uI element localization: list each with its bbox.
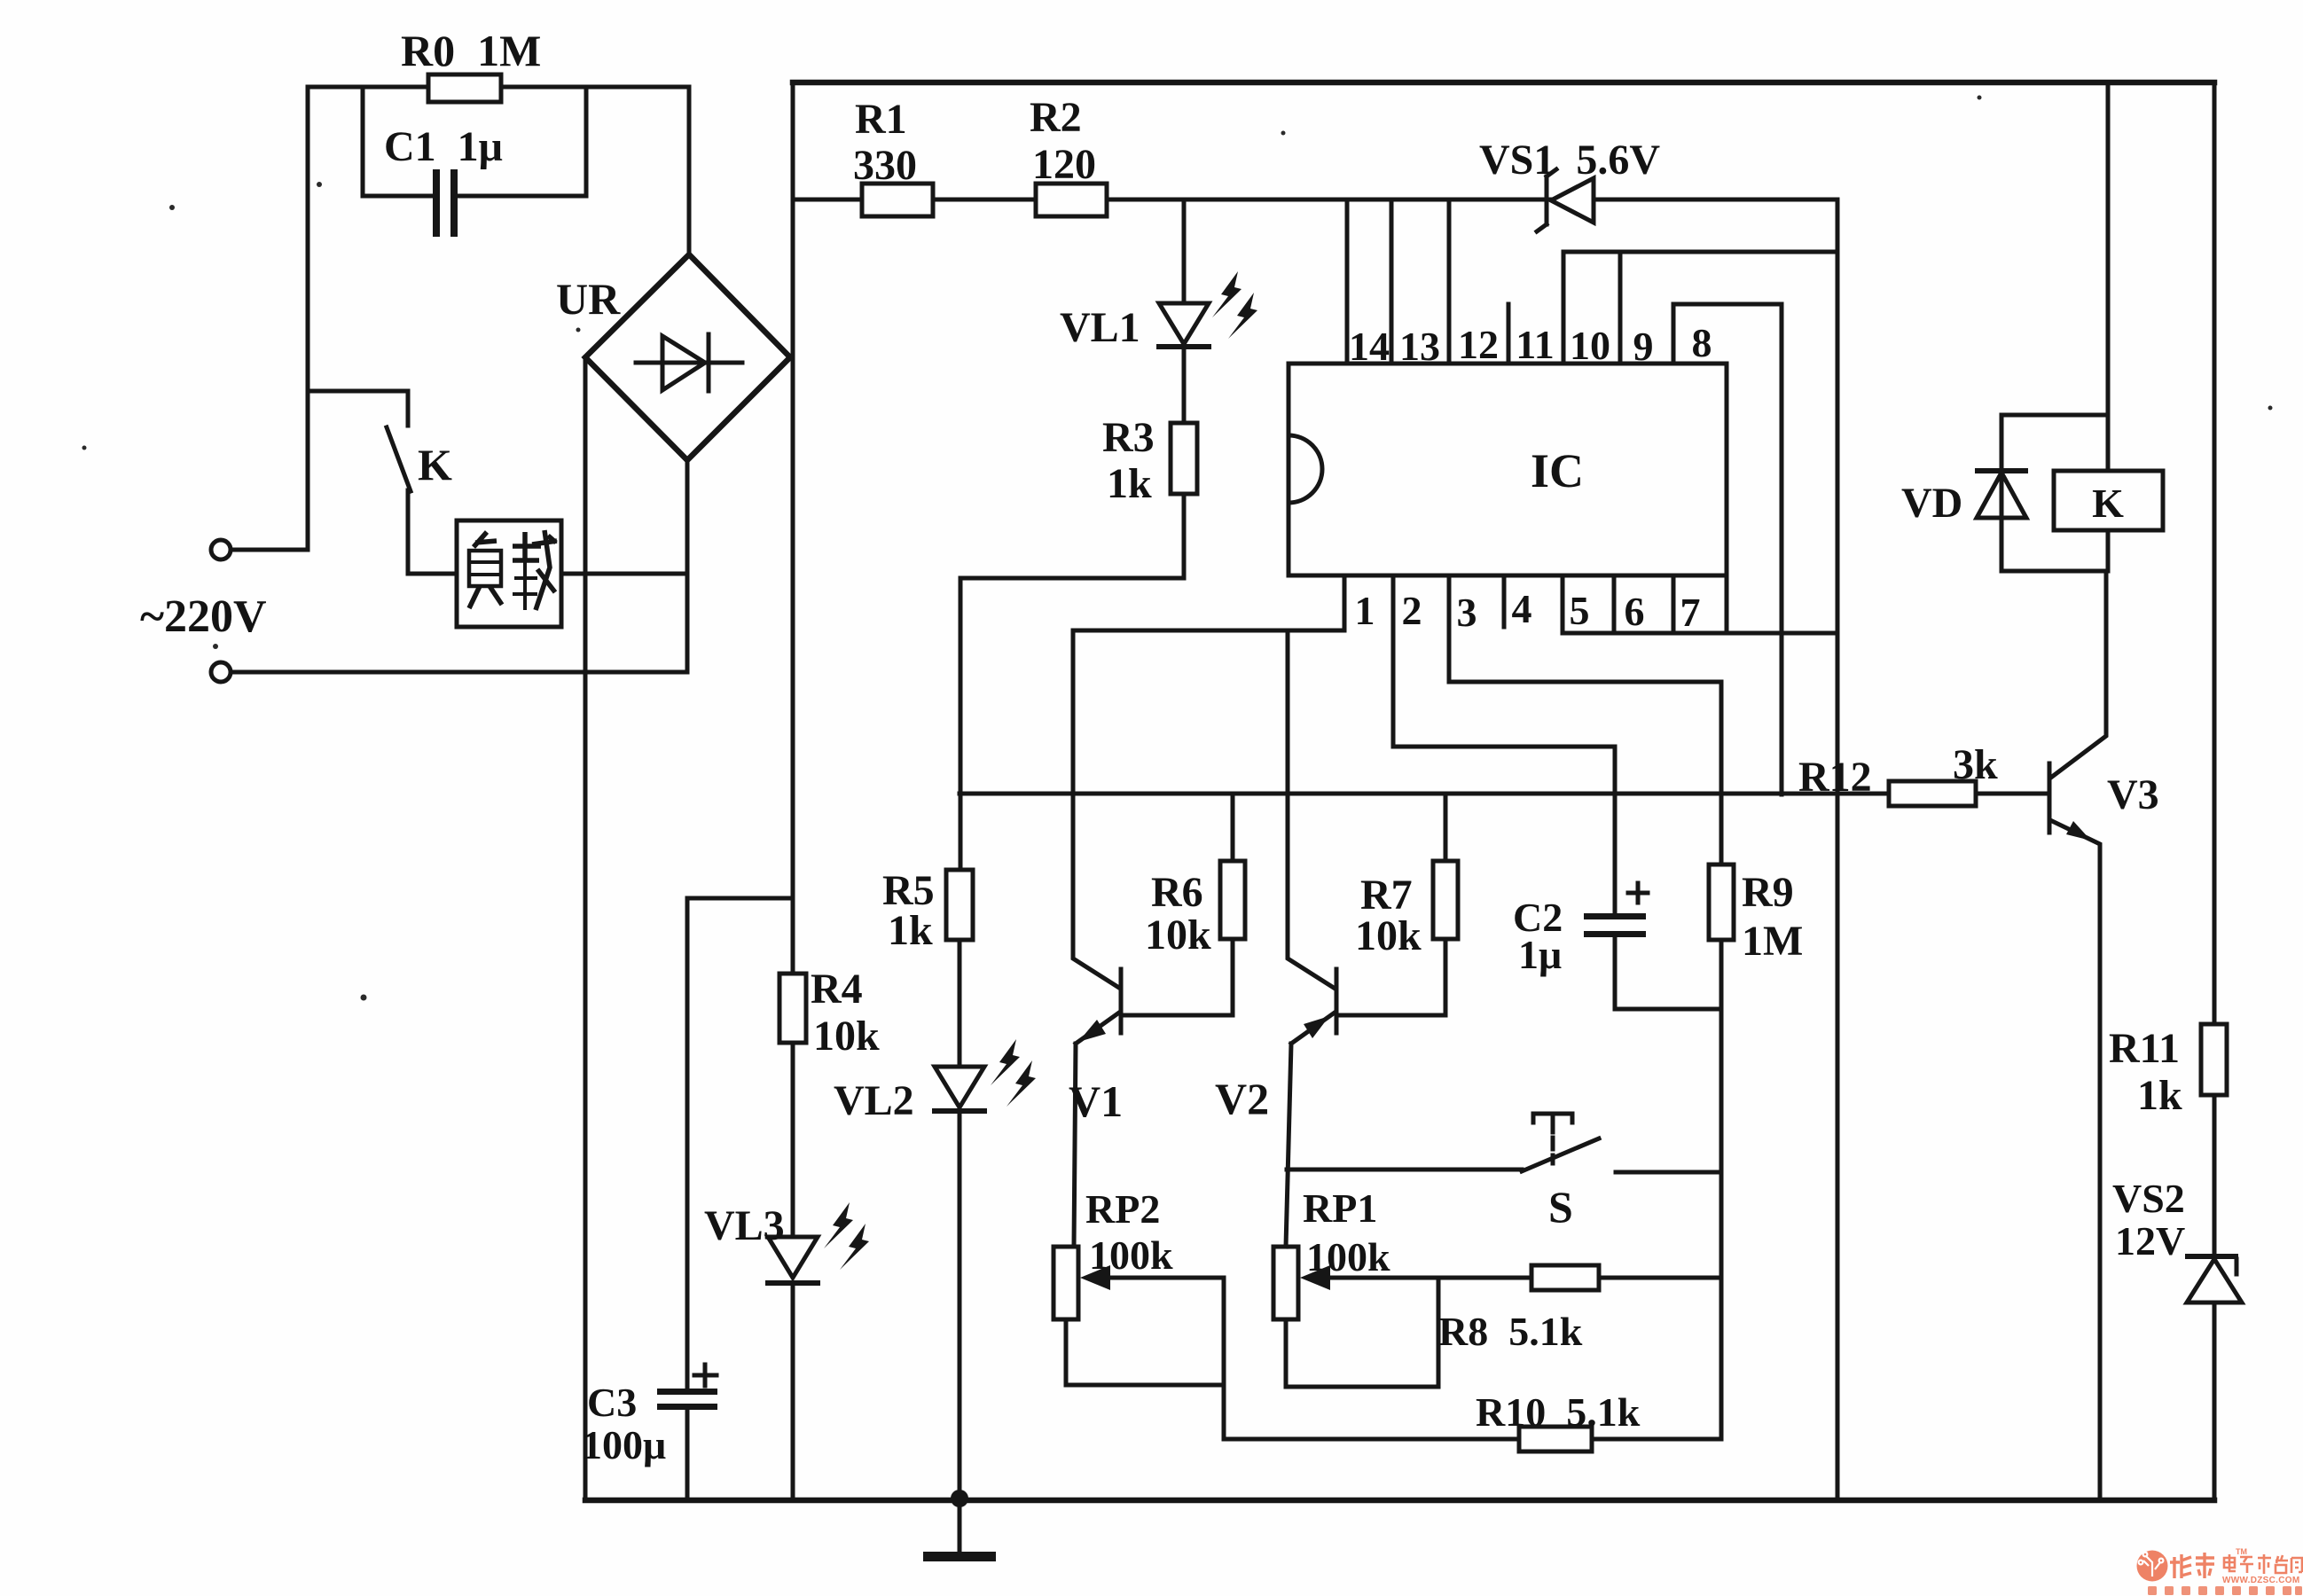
wire pin 2 <box>1393 575 1615 913</box>
svg-text:R0 1M: R0 1M <box>401 26 541 75</box>
svg-text:S: S <box>1548 1182 1573 1232</box>
resistor R1 <box>862 184 933 216</box>
transistor V1 collector wire <box>1073 630 1119 988</box>
wire C2 bottom <box>1615 937 1721 1009</box>
wire load box right to bridge <box>561 572 687 576</box>
transistor V3 collector <box>2052 571 2106 777</box>
svg-text:10: 10 <box>1570 323 1610 368</box>
svg-text:1: 1 <box>1355 588 1375 633</box>
wire pin 13 <box>1390 199 1394 364</box>
bridge rectifier UR diamond <box>585 254 790 460</box>
svg-text:WWW.DZSC.COM: WWW.DZSC.COM <box>2222 1576 2299 1585</box>
svg-text:R2: R2 <box>1030 94 1082 141</box>
svg-text:C1 1μ: C1 1μ <box>384 123 503 170</box>
zener diode VS2 <box>2185 1254 2238 1259</box>
pin divider 4 <box>1502 575 1507 627</box>
transistor V3 base bar <box>2048 763 2052 833</box>
svg-text:14: 14 <box>1349 324 1390 369</box>
wire C3 branch vertical <box>685 898 690 1500</box>
svg-text:C3: C3 <box>587 1380 637 1425</box>
watermark logo <box>2137 1551 2168 1582</box>
svg-text:10k: 10k <box>1145 911 1211 958</box>
transistor V1 emitter wire <box>1074 1044 1076 1247</box>
svg-text:12V: 12V <box>2115 1218 2185 1263</box>
svg-text:K: K <box>2092 481 2124 526</box>
svg-text:10k: 10k <box>1355 912 1422 959</box>
wire VL2 to ground rail <box>958 1114 962 1500</box>
capacitor C1 branch wires <box>363 87 586 196</box>
svg-text:12: 12 <box>1458 322 1499 367</box>
transistor V2 emitter wire <box>1286 1044 1291 1247</box>
load box 负载 <box>457 520 561 627</box>
wire R6 top <box>1231 794 1235 861</box>
wire C3 branch top link <box>687 896 793 901</box>
svg-text:UR: UR <box>556 274 621 324</box>
svg-text:IC: IC <box>1531 444 1584 497</box>
svg-text:3: 3 <box>1457 590 1477 635</box>
switch S button cap <box>1533 1114 1572 1132</box>
svg-text:1k: 1k <box>1107 460 1152 507</box>
capacitor C1 plates <box>433 169 440 237</box>
wire R5 to VL2 <box>958 940 962 1067</box>
wire R7 top <box>1444 794 1448 861</box>
wire mid rail y895 <box>960 792 1889 796</box>
bridge rectifier UR top lead <box>687 87 692 254</box>
wire R10 right <box>1592 1437 1721 1442</box>
svg-text:R1: R1 <box>855 96 907 143</box>
relay K box <box>2054 471 2163 530</box>
transistor V2 emitter <box>1291 1013 1335 1044</box>
svg-text:330: 330 <box>853 142 917 189</box>
resistor R9 <box>1709 864 1734 940</box>
svg-text:R3: R3 <box>1102 414 1155 461</box>
svg-text:7: 7 <box>1680 590 1701 635</box>
svg-text:R10 5.1k: R10 5.1k <box>1476 1389 1641 1435</box>
wire pin 3 <box>1449 575 1721 864</box>
wire V2 base to R7 <box>1338 939 1445 1015</box>
switch S right wire <box>1616 1170 1721 1175</box>
svg-text:VD: VD <box>1901 480 1962 527</box>
resistor R11 <box>2201 1024 2227 1095</box>
capacitor C3 plates <box>657 1389 717 1395</box>
svg-text:1k: 1k <box>888 907 933 954</box>
wire right border upper <box>2213 82 2217 1024</box>
relay K wire from top <box>2106 82 2111 471</box>
svg-text:K: K <box>418 440 452 489</box>
svg-text:TM: TM <box>2236 1547 2247 1556</box>
LED VL1 branch wire <box>1182 199 1187 423</box>
transistor V3 emitter <box>2052 821 2100 1500</box>
potentiometer RP1 wiper <box>1320 1276 1531 1280</box>
zener diode VS1 <box>1551 178 1594 223</box>
svg-text:R4: R4 <box>811 966 863 1013</box>
resistor R3 <box>1171 423 1197 494</box>
terminal node lower <box>231 670 687 675</box>
LED VL1 <box>1159 303 1209 344</box>
svg-text:1μ: 1μ <box>1518 932 1562 977</box>
wire R11 to VS2 <box>2213 1095 2217 1256</box>
wire big box top border <box>793 80 2214 86</box>
wire pin 14 <box>1345 199 1350 364</box>
wire R8 right <box>1599 1276 1721 1280</box>
svg-text:11: 11 <box>1516 322 1554 367</box>
svg-text:10k: 10k <box>813 1013 880 1060</box>
wire RP2 bottom loop <box>1066 1319 1224 1385</box>
potentiometer RP1 body <box>1273 1247 1298 1319</box>
svg-text:9: 9 <box>1633 324 1654 369</box>
svg-text:4: 4 <box>1512 586 1532 631</box>
resistor R7 <box>1433 861 1458 939</box>
resistor R2 <box>1036 184 1107 216</box>
wire top-left mains loop <box>308 87 689 550</box>
svg-text:~220V: ~220V <box>140 591 267 642</box>
resistor R8 <box>1531 1265 1599 1290</box>
svg-text:8: 8 <box>1692 320 1712 365</box>
potentiometer RP2 body <box>1054 1247 1078 1319</box>
svg-text:RP1: RP1 <box>1303 1185 1377 1231</box>
svg-text:R6: R6 <box>1151 869 1203 916</box>
resistor R5 <box>946 870 973 940</box>
resistor R4 <box>779 974 806 1043</box>
pin divider 11 <box>1507 304 1511 364</box>
svg-text:R12: R12 <box>1798 754 1872 801</box>
wire big box bottom border <box>585 1498 2214 1504</box>
switch S left wire <box>1287 1168 1522 1172</box>
wire pin 12 <box>1447 199 1452 364</box>
svg-text:100μ: 100μ <box>582 1422 666 1467</box>
svg-text:VS1 5.6V: VS1 5.6V <box>1479 137 1660 184</box>
wire R10 line left <box>1224 1437 1519 1442</box>
wire RP2 loop vertical <box>1222 1278 1226 1439</box>
svg-text:R11: R11 <box>2109 1025 2180 1072</box>
wire pin 6 <box>1612 575 1617 633</box>
svg-text:1M: 1M <box>1742 918 1803 965</box>
transistor V2 base bar <box>1335 969 1339 1033</box>
diode VD branch wires <box>2001 415 2108 571</box>
wire V1 base to R6 <box>1123 939 1233 1015</box>
wire big box left border upper <box>791 82 795 974</box>
wire pin 11-10 <box>1562 252 1566 364</box>
resistor R10 <box>1519 1427 1592 1451</box>
potentiometer RP2 wiper <box>1100 1276 1224 1280</box>
svg-text:VS2: VS2 <box>2112 1176 2185 1221</box>
node junction dot ground <box>951 1490 968 1507</box>
resistor R12 <box>1889 781 1976 806</box>
IC notch <box>1289 435 1322 503</box>
svg-text:VL3: VL3 <box>704 1202 785 1249</box>
svg-text:13: 13 <box>1399 324 1440 369</box>
wire pin 1 <box>1073 575 1344 630</box>
wire pins 5-7 bottom link <box>1563 631 1837 636</box>
terminal node upper <box>231 548 308 552</box>
wire pin 7 <box>1673 575 1727 633</box>
ground <box>958 1500 962 1553</box>
wire relay K bottom <box>2106 530 2111 571</box>
wire pin 8 <box>1673 304 1782 794</box>
wire VL3 to bottom border <box>791 1286 795 1500</box>
capacitor C2 plus <box>1628 883 1648 903</box>
switch K blade <box>387 427 411 491</box>
svg-text:V1: V1 <box>1069 1076 1123 1126</box>
wire pin 10-9 <box>1618 252 1623 364</box>
wire pins 10-9 top link <box>1563 250 1837 254</box>
LED VL3 <box>768 1237 818 1278</box>
switch S blade <box>1522 1138 1599 1171</box>
op-amp U1 IC box <box>1289 364 1727 575</box>
scan speck noise <box>82 96 2273 1001</box>
svg-text:V3: V3 <box>2107 771 2159 818</box>
svg-text:V2: V2 <box>1215 1074 1269 1123</box>
svg-text:VL2: VL2 <box>834 1077 914 1124</box>
wire VS2 to bottom border <box>2213 1303 2217 1500</box>
transistor V2 collector wire <box>1288 630 1334 988</box>
resistor R0 <box>428 74 501 102</box>
load text FuZai stroke drawing <box>469 530 557 610</box>
svg-text:3k: 3k <box>1953 741 1998 788</box>
wire pin 5 <box>1561 575 1565 633</box>
svg-text:RP2: RP2 <box>1085 1186 1160 1232</box>
wire UR bottom vertex down <box>685 460 690 672</box>
wire rail-end long vertical x2072 <box>1836 199 1840 1500</box>
watermark brand text 维库 <box>2170 1553 2214 1578</box>
switch K wire <box>308 391 457 574</box>
wire top rail y225 <box>793 198 1837 202</box>
svg-text:6: 6 <box>1625 589 1645 634</box>
wire R9 bottom long vertical <box>1719 940 1724 1439</box>
wire UR left vertex down <box>584 357 588 1500</box>
capacitor C3 plus sign <box>694 1365 717 1386</box>
bridge UR internal diode <box>636 361 742 365</box>
resistor R6 <box>1220 861 1245 939</box>
wire R3 bottom to R5 line <box>960 494 1184 870</box>
svg-text:R8 5.1k: R8 5.1k <box>1438 1309 1583 1354</box>
transistor V1 base bar <box>1119 969 1124 1033</box>
svg-text:120: 120 <box>1032 141 1096 188</box>
svg-text:5: 5 <box>1570 588 1590 633</box>
svg-text:VL1: VL1 <box>1060 304 1140 351</box>
wire R12 to V3 base <box>1976 792 2046 796</box>
diode VD <box>1975 468 2028 473</box>
LED VL2 <box>935 1067 984 1107</box>
watermark slogan 专业电子元器件交易网站 <box>2148 1586 2302 1595</box>
transistor V1 emitter <box>1076 1013 1119 1044</box>
wire between R4 and VL3 <box>791 1043 795 1237</box>
capacitor C2 plates <box>1584 913 1646 919</box>
svg-text:1k: 1k <box>2137 1072 2182 1119</box>
watermark text 电子市场网 <box>2224 1554 2302 1574</box>
svg-text:R9: R9 <box>1742 869 1794 916</box>
svg-text:2: 2 <box>1402 588 1422 633</box>
wire RP1 bottom loop <box>1286 1278 1438 1387</box>
